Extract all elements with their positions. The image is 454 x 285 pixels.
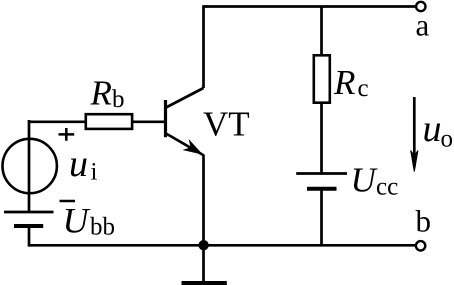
source u_i circle — [3, 139, 57, 193]
output arrow u_o line — [413, 97, 416, 167]
wire: left vertical through source — [28, 120, 31, 212]
wire: top rail from collector to terminal a — [204, 5, 416, 8]
wire: battery U_cc to bottom rail — [320, 189, 323, 245]
wire: base wire from source to transistor — [29, 120, 165, 123]
minus sign — [60, 200, 76, 203]
battery U_cc long plate — [296, 172, 347, 175]
junction node — [198, 240, 208, 250]
battery U_bb long plate — [4, 211, 54, 214]
resistor R_c body — [314, 55, 330, 102]
wire: below battery to bottom rail — [28, 226, 31, 247]
svg-text:VT: VT — [203, 105, 250, 144]
svg-text:U: U — [63, 201, 91, 241]
svg-text:bb: bb — [90, 214, 115, 241]
svg-text:cc: cc — [376, 173, 398, 200]
svg-text:R: R — [90, 74, 112, 113]
svg-text:U: U — [351, 161, 379, 200]
ground stem — [202, 245, 205, 281]
svg-text:c: c — [358, 75, 369, 102]
svg-text:R: R — [333, 63, 355, 102]
svg-text:a: a — [416, 8, 430, 43]
wire: R_c branch upper — [320, 7, 323, 56]
transistor VT: base bar — [164, 100, 167, 137]
transistor VT: emitter diagonal — [166, 134, 204, 156]
output arrow u_o head — [411, 151, 418, 172]
battery U_cc short plate — [307, 187, 337, 191]
terminal b — [416, 241, 425, 250]
ground bar — [182, 281, 227, 285]
plus sign — [59, 128, 75, 141]
wire: bottom rail y=245 — [29, 244, 415, 247]
transistor Q VT: collector diagonal — [166, 88, 204, 108]
svg-text:b: b — [416, 204, 432, 239]
wire: R_c to battery U_cc — [320, 103, 323, 174]
svg-text:o: o — [441, 126, 454, 153]
resistor R_b body — [86, 114, 132, 129]
terminal a — [416, 2, 425, 11]
wire: emitter vertical — [202, 155, 205, 245]
battery U_bb short plate — [14, 224, 43, 228]
svg-text:u: u — [423, 108, 442, 150]
transistor VT: emitter arrowhead — [185, 142, 201, 154]
wire: collector vertical — [202, 5, 205, 88]
svg-text:u: u — [69, 143, 88, 185]
svg-text:b: b — [112, 86, 125, 113]
svg-text:i: i — [91, 159, 98, 186]
